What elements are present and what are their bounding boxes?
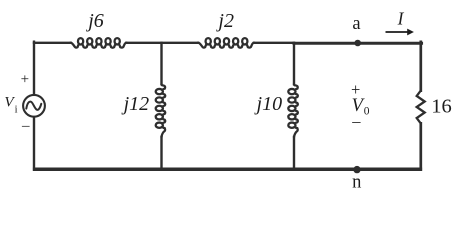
svg-text:16: 16 xyxy=(431,96,452,118)
svg-text:a: a xyxy=(352,14,360,34)
wire j10 branch vertical stubs xyxy=(293,43,295,169)
wire bottom rail (thick bus) xyxy=(33,168,422,172)
svg-text:n: n xyxy=(352,173,361,193)
svg-text:0: 0 xyxy=(364,106,370,118)
wire junction j10 to top-right corner (heavier) xyxy=(294,42,422,45)
wire left vertical (source branch) xyxy=(33,42,35,170)
resistor R 16 zigzag xyxy=(417,91,425,124)
wire from j2 to top-right corner xyxy=(254,42,294,44)
inductor j12 coil xyxy=(156,84,166,137)
svg-text:j10: j10 xyxy=(254,93,283,115)
inductor j10 coil xyxy=(288,84,298,137)
current I arrow xyxy=(386,29,414,36)
wire j12 branch vertical stubs xyxy=(160,43,162,169)
svg-text:–: – xyxy=(351,112,361,131)
inductor j6 coil xyxy=(70,38,126,48)
ac source sine wave xyxy=(26,102,41,110)
node a junction dot xyxy=(354,40,361,47)
ac source Vi circle xyxy=(23,95,45,117)
node n junction dot xyxy=(353,166,360,173)
svg-text:i: i xyxy=(15,104,18,115)
svg-text:I: I xyxy=(397,8,405,28)
svg-text:+: + xyxy=(21,72,29,88)
wire between j6 and j2 xyxy=(126,42,198,44)
wire top-left segment xyxy=(34,42,71,44)
wire right vertical (resistor branch) xyxy=(419,42,422,170)
svg-text:j2: j2 xyxy=(215,10,234,32)
svg-text:j12: j12 xyxy=(121,93,150,115)
inductor j2 coil xyxy=(198,38,254,48)
svg-text:–: – xyxy=(21,118,30,134)
svg-text:j6: j6 xyxy=(85,10,104,32)
